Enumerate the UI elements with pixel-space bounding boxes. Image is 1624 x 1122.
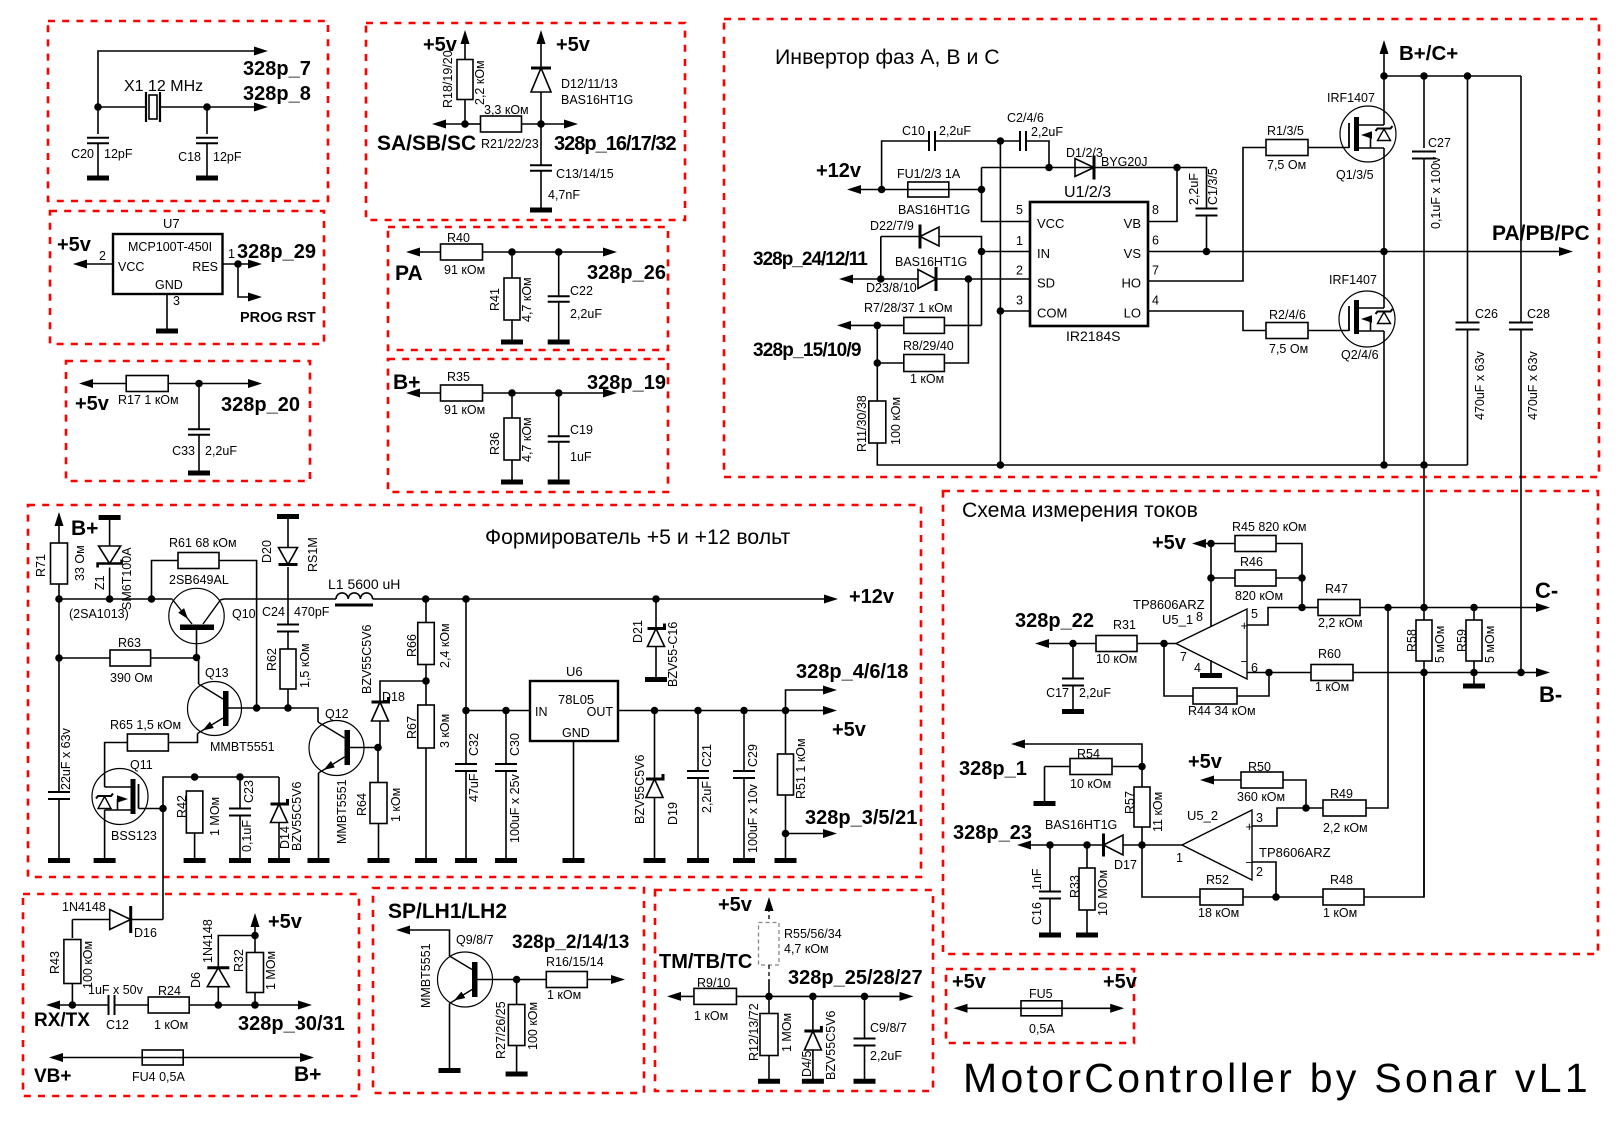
svg-text:0,1uF x 100v: 0,1uF x 100v bbox=[1429, 156, 1443, 229]
junction bbox=[1298, 574, 1306, 582]
resistor R45 820k bbox=[1235, 536, 1276, 552]
svg-text:MMBT5551: MMBT5551 bbox=[210, 740, 275, 754]
svg-text:U7: U7 bbox=[163, 216, 180, 231]
junction bbox=[997, 461, 1005, 469]
svg-text:IN: IN bbox=[1037, 246, 1050, 261]
svg-text:4,7 кОм: 4,7 кОм bbox=[784, 942, 829, 956]
resistor R2/4/6 7,5 Ом bbox=[1266, 323, 1308, 339]
resistor R63 390 Ом bbox=[58, 599, 60, 658]
svg-text:R63: R63 bbox=[118, 636, 141, 650]
diode D6 1N4148 bbox=[217, 987, 219, 1006]
svg-text:D16: D16 bbox=[134, 926, 157, 940]
resistor R32 1M bbox=[254, 936, 256, 953]
ground bbox=[506, 1072, 528, 1077]
wire R1 to Q1 gate bbox=[1308, 147, 1349, 149]
svg-text:328p_22: 328p_22 bbox=[1015, 610, 1094, 632]
wire TM row left bbox=[673, 995, 694, 997]
svg-text:1N4148: 1N4148 bbox=[62, 900, 106, 914]
wire VCC to +5v bbox=[79, 263, 113, 265]
junction bbox=[1384, 604, 1392, 612]
svg-text:R42: R42 bbox=[175, 795, 189, 818]
svg-text:1nF: 1nF bbox=[1030, 868, 1044, 890]
svg-text:4,7 кОм: 4,7 кОм bbox=[520, 277, 534, 322]
svg-text:8: 8 bbox=[1196, 610, 1203, 624]
ground bbox=[495, 858, 517, 863]
svg-text:1: 1 bbox=[228, 247, 235, 261]
svg-text:R61 68 кОм: R61 68 кОм bbox=[169, 536, 237, 550]
svg-text:R45 820 кОм: R45 820 кОм bbox=[1232, 520, 1307, 534]
wire IN pin bbox=[982, 251, 1031, 253]
resistor R17 1k bbox=[126, 376, 168, 392]
svg-text:1uF: 1uF bbox=[570, 450, 592, 464]
svg-text:Q9/8/7: Q9/8/7 bbox=[456, 933, 494, 947]
resistor R57 11k bbox=[1141, 767, 1143, 788]
svg-text:5: 5 bbox=[1016, 203, 1023, 217]
svg-text:91 кОм: 91 кОм bbox=[444, 403, 485, 417]
svg-text:C18: C18 bbox=[178, 150, 201, 164]
capacitor C28 470uF bbox=[1520, 76, 1522, 323]
svg-text:1 кОм: 1 кОм bbox=[1323, 906, 1357, 920]
svg-text:R16/15/14: R16/15/14 bbox=[546, 955, 604, 969]
svg-text:PROG RST: PROG RST bbox=[240, 310, 316, 326]
wire gate node down to D16 bbox=[162, 809, 164, 920]
resistor R44 34k feedback bbox=[1164, 644, 1193, 697]
svg-text:VB+: VB+ bbox=[34, 1066, 72, 1087]
resistor R49 2,2k bbox=[1306, 807, 1323, 809]
ground bbox=[530, 208, 552, 213]
ground bbox=[368, 858, 390, 863]
wire node2 to 328p arrow bbox=[541, 123, 572, 125]
svg-text:X1 12 MHz: X1 12 MHz bbox=[124, 78, 203, 95]
capacitor C13/14/15 4,7nF bbox=[540, 124, 542, 165]
svg-text:C27: C27 bbox=[1428, 136, 1451, 150]
wire LO to gate resistor bbox=[1148, 311, 1266, 331]
svg-text:U5_1: U5_1 bbox=[1162, 612, 1193, 627]
svg-text:10 кОм: 10 кОм bbox=[1070, 777, 1111, 791]
wire fuse to B+ bbox=[184, 1057, 309, 1059]
svg-text:C32: C32 bbox=[467, 733, 481, 756]
junction bbox=[782, 830, 790, 838]
svg-text:HO: HO bbox=[1122, 276, 1142, 291]
svg-text:100uF x 25v: 100uF x 25v bbox=[508, 773, 522, 843]
svg-text:R40: R40 bbox=[447, 231, 470, 245]
capacitor C23 0,1uF bbox=[239, 777, 241, 809]
svg-text:C23: C23 bbox=[242, 780, 256, 803]
resistor R33 10M bbox=[1086, 845, 1088, 868]
svg-text:4,7nF: 4,7nF bbox=[548, 188, 580, 202]
wire supply rail left bbox=[59, 598, 173, 600]
junction bbox=[195, 380, 203, 388]
ground bbox=[775, 858, 797, 863]
svg-text:C2/4/6: C2/4/6 bbox=[1007, 111, 1044, 125]
wire crystal to 328p_8 arrow bbox=[160, 106, 262, 108]
svg-text:C30: C30 bbox=[508, 733, 522, 756]
wire Q11 gate to node bbox=[139, 808, 164, 810]
svg-text:C24: C24 bbox=[262, 605, 285, 619]
svg-text:MMBT5551: MMBT5551 bbox=[335, 779, 349, 844]
svg-text:MCP100T-450I: MCP100T-450I bbox=[128, 240, 212, 254]
junction bbox=[461, 120, 469, 128]
svg-text:R50: R50 bbox=[1248, 760, 1271, 774]
svg-text:+12v: +12v bbox=[816, 160, 862, 182]
wire C32 drop from rail bbox=[465, 599, 467, 711]
svg-text:R32: R32 bbox=[232, 949, 246, 972]
junction bbox=[508, 248, 516, 256]
ground bbox=[687, 858, 709, 863]
svg-text:+5v: +5v bbox=[1103, 971, 1138, 993]
wire R50 to node bbox=[1283, 780, 1306, 808]
svg-text:−: − bbox=[1241, 654, 1249, 669]
wire COM/ground vertical bbox=[999, 141, 1001, 465]
wire Q1 source to phase bbox=[1383, 148, 1385, 252]
ground bbox=[184, 858, 206, 863]
wire B+ arrow bbox=[1383, 46, 1385, 76]
wire R24 to 328p_30/31 bbox=[190, 1004, 307, 1006]
svg-text:R47: R47 bbox=[1325, 582, 1348, 596]
svg-text:BYG20J: BYG20J bbox=[1101, 155, 1148, 169]
wire HO to gate resistor bbox=[1148, 148, 1266, 282]
svg-text:470pF: 470pF bbox=[294, 605, 330, 619]
svg-text:12pF: 12pF bbox=[213, 150, 242, 164]
svg-text:VCC: VCC bbox=[118, 260, 144, 274]
svg-text:COM: COM bbox=[1037, 306, 1067, 321]
junction bbox=[193, 654, 201, 662]
block hall sensor inputs SA/SB/SC bbox=[366, 23, 685, 220]
svg-text:2SB649AL: 2SB649AL bbox=[169, 573, 229, 587]
capacitor C29 100uF bbox=[743, 711, 745, 772]
svg-text:U5_2: U5_2 bbox=[1187, 808, 1218, 823]
diode D17 BAS16HT1G bbox=[1104, 835, 1124, 855]
wire +5v arrow bbox=[254, 919, 256, 936]
svg-text:7,5 Ом: 7,5 Ом bbox=[1269, 342, 1308, 356]
svg-text:R67: R67 bbox=[405, 716, 419, 739]
ground bbox=[87, 176, 109, 181]
capacitor C30 100uF bbox=[505, 711, 507, 765]
junction bbox=[502, 707, 510, 715]
ground bbox=[229, 858, 251, 863]
svg-text:1 МОм: 1 МОм bbox=[780, 1013, 794, 1052]
svg-text:GND: GND bbox=[562, 726, 590, 740]
svg-text:328p_2/14/13: 328p_2/14/13 bbox=[512, 932, 629, 953]
junction bbox=[251, 932, 259, 940]
junction bbox=[1298, 604, 1306, 612]
ground bbox=[268, 858, 290, 863]
junction bbox=[462, 707, 470, 715]
svg-text:B+: B+ bbox=[71, 517, 98, 540]
svg-text:1: 1 bbox=[1176, 851, 1183, 865]
wire VCC top line bbox=[982, 167, 1178, 169]
svg-text:C13/14/15: C13/14/15 bbox=[556, 167, 614, 181]
svg-text:3,3 кОм: 3,3 кОм bbox=[484, 103, 529, 117]
svg-text:10 кОм: 10 кОм bbox=[1096, 652, 1137, 666]
junction bbox=[997, 307, 1005, 315]
junction bbox=[422, 677, 430, 685]
svg-text:R62: R62 bbox=[265, 648, 279, 671]
capacitor C16 1nF bbox=[1049, 845, 1051, 892]
wire R55 stub bbox=[768, 980, 770, 996]
wire U6 gnd bbox=[573, 741, 575, 859]
svg-text:+12v: +12v bbox=[849, 586, 895, 608]
svg-text:2,2uF: 2,2uF bbox=[1187, 173, 1201, 205]
wire Q9 emitter to ground bbox=[449, 1004, 451, 1070]
svg-text:BZV55C5V6: BZV55C5V6 bbox=[290, 781, 304, 851]
junction bbox=[1420, 669, 1428, 677]
junction bbox=[1265, 669, 1273, 677]
svg-text:R55/56/34: R55/56/34 bbox=[784, 927, 842, 941]
svg-text:BZV55C5V6: BZV55C5V6 bbox=[360, 624, 374, 694]
wire pin2 to R52/R48 node bbox=[1252, 862, 1276, 897]
wire pin3 to node bbox=[1252, 808, 1306, 826]
resistor R71 33 Ом bbox=[51, 543, 68, 584]
svg-text:Q12: Q12 bbox=[325, 707, 349, 721]
svg-text:Q10: Q10 bbox=[232, 607, 256, 621]
svg-text:C12: C12 bbox=[106, 1018, 129, 1032]
svg-text:R71: R71 bbox=[34, 554, 48, 577]
ground bbox=[501, 480, 523, 485]
ground bbox=[854, 1079, 876, 1084]
capacitor C21 2,2uF bbox=[697, 711, 699, 772]
wire 328p_4/6/18 branch bbox=[786, 690, 832, 711]
wire GND pin bbox=[166, 294, 168, 331]
block phase A voltage divider bbox=[388, 227, 668, 350]
wire +5v to R45 bbox=[1198, 543, 1235, 545]
diode D20 RS1M bbox=[277, 514, 299, 519]
ground bbox=[439, 1068, 461, 1073]
svg-text:R46: R46 bbox=[1240, 555, 1263, 569]
svg-text:(2SA1013): (2SA1013) bbox=[69, 607, 129, 621]
svg-text:820 кОм: 820 кОм bbox=[1235, 589, 1283, 603]
junction bbox=[978, 186, 986, 194]
junction bbox=[1207, 540, 1215, 548]
svg-text:C20: C20 bbox=[71, 147, 94, 161]
ground R54 left bbox=[1044, 767, 1046, 803]
capacitor C27 0,1uF bbox=[1423, 76, 1425, 148]
svg-text:C29: C29 bbox=[746, 744, 760, 767]
resistor R7/28/37 1k bbox=[904, 317, 945, 333]
svg-text:3 кОм: 3 кОм bbox=[438, 714, 452, 748]
svg-text:R33: R33 bbox=[1068, 875, 1082, 898]
resistor R66 2,4k bbox=[425, 599, 427, 623]
capacitor C12 1uF bbox=[109, 995, 115, 1015]
wire 328p_22 row bbox=[1041, 643, 1176, 645]
svg-text:GND: GND bbox=[155, 278, 183, 292]
svg-text:SA/SB/SC: SA/SB/SC bbox=[377, 132, 476, 155]
capacitor C32 47uF bbox=[465, 711, 467, 765]
svg-text:SD: SD bbox=[1037, 276, 1055, 291]
svg-text:R43: R43 bbox=[48, 951, 62, 974]
ground bbox=[196, 176, 218, 181]
capacitor C9/8/7 2,2uF bbox=[864, 996, 866, 1038]
svg-text:7: 7 bbox=[1180, 650, 1187, 664]
svg-text:328p_16/17/32: 328p_16/17/32 bbox=[554, 133, 676, 155]
svg-text:1,5 кОм: 1,5 кОм bbox=[298, 643, 312, 688]
capacitor C18 12pF bbox=[206, 107, 208, 134]
svg-text:D1/2/3: D1/2/3 bbox=[1066, 146, 1103, 160]
wire R49 up to C- bbox=[1366, 608, 1388, 809]
svg-text:7: 7 bbox=[1152, 264, 1159, 278]
svg-text:2,2 кОм: 2,2 кОм bbox=[1323, 821, 1368, 835]
wire R9 to 328p_25/28/27 bbox=[737, 995, 908, 997]
svg-text:C1/3/5: C1/3/5 bbox=[1206, 168, 1220, 205]
svg-text:R36: R36 bbox=[488, 432, 502, 455]
resistor R55/56/34 optional dashed bbox=[759, 923, 780, 966]
svg-text:+5v: +5v bbox=[556, 34, 591, 56]
svg-text:R31: R31 bbox=[1113, 618, 1136, 632]
svg-text:328p_24/12/11: 328p_24/12/11 bbox=[753, 249, 868, 270]
svg-text:1 кОм: 1 кОм bbox=[910, 372, 944, 386]
resistor R31 10k bbox=[1096, 636, 1137, 652]
svg-text:+5v: +5v bbox=[75, 393, 110, 415]
svg-text:R57: R57 bbox=[1123, 791, 1137, 814]
resistor R16/15/14 1k bbox=[546, 972, 587, 988]
block inverter phases A B C bbox=[724, 19, 1599, 477]
wire R17 to 328p_20 bbox=[169, 383, 257, 385]
svg-text:4: 4 bbox=[1152, 294, 1159, 308]
junction bbox=[874, 322, 882, 330]
svg-text:Z1: Z1 bbox=[93, 575, 107, 590]
svg-text:328p_25/28/27: 328p_25/28/27 bbox=[788, 967, 923, 989]
svg-text:+5v: +5v bbox=[718, 894, 753, 916]
svg-text:470uF x 63v: 470uF x 63v bbox=[1526, 350, 1540, 420]
svg-text:R24: R24 bbox=[158, 984, 181, 998]
svg-text:1 кОм: 1 кОм bbox=[154, 1018, 188, 1032]
wire D23 to SD pin bbox=[936, 278, 1030, 280]
svg-text:1 кОм: 1 кОм bbox=[694, 1009, 728, 1023]
zener D18 BZV55C5V6 bbox=[380, 681, 426, 702]
wire R45 right bbox=[1276, 544, 1302, 608]
svg-text:LO: LO bbox=[1124, 306, 1141, 321]
svg-text:MotorController by Sonar vL1: MotorController by Sonar vL1 bbox=[963, 1055, 1591, 1101]
capacitor C19 1uF bbox=[558, 393, 560, 436]
svg-text:−: − bbox=[1246, 855, 1254, 870]
wire +5v to R50 bbox=[1206, 779, 1241, 781]
svg-text:Q1/3/5: Q1/3/5 bbox=[1336, 168, 1374, 182]
resistor R51 1k bbox=[785, 711, 787, 755]
wire COM pin bbox=[1000, 310, 1030, 312]
block reset RC filter bbox=[66, 361, 310, 481]
wire R61 to Q13 base node bbox=[219, 561, 257, 709]
wire R7 row left bbox=[843, 324, 904, 326]
svg-text:FU1/2/3 1A: FU1/2/3 1A bbox=[897, 167, 961, 181]
svg-text:1N4148: 1N4148 bbox=[201, 919, 215, 963]
junction bbox=[878, 186, 886, 194]
svg-text:D12/11/13: D12/11/13 bbox=[561, 77, 618, 91]
svg-text:328p_7: 328p_7 bbox=[243, 58, 311, 80]
ground bbox=[94, 858, 116, 863]
svg-text:C17: C17 bbox=[1046, 686, 1069, 700]
capacitor C33 2,2uF bbox=[198, 384, 200, 429]
ground bbox=[1039, 933, 1061, 938]
svg-text:22uF x 63v: 22uF x 63v bbox=[59, 727, 73, 790]
junction bbox=[191, 773, 199, 781]
svg-text:360 кОм: 360 кОм bbox=[1237, 790, 1285, 804]
svg-text:Схема измерения токов: Схема измерения токов bbox=[962, 499, 1198, 522]
ground bbox=[644, 858, 666, 863]
svg-text:SP/LH1/LH2: SP/LH1/LH2 bbox=[388, 900, 507, 923]
zener D14 BZV55C5V6 bbox=[278, 777, 280, 804]
svg-text:328p_23: 328p_23 bbox=[953, 822, 1032, 844]
wire pin6 row bbox=[1247, 672, 1311, 674]
wire SD row left bbox=[845, 278, 918, 280]
svg-text:Q2/4/6: Q2/4/6 bbox=[1341, 348, 1379, 362]
svg-text:RS1M: RS1M bbox=[306, 537, 320, 572]
svg-text:B+/C+: B+/C+ bbox=[1399, 42, 1458, 65]
junction bbox=[253, 704, 261, 712]
wire B+ in bbox=[55, 512, 64, 526]
svg-text:1 кОм: 1 кОм bbox=[389, 788, 403, 822]
svg-text:R1/3/5: R1/3/5 bbox=[1267, 124, 1304, 138]
resistor R12/13/72 1M bbox=[768, 996, 770, 1013]
wire B+ to R35 bbox=[412, 392, 441, 394]
wire 328p_23 row bbox=[1023, 844, 1104, 846]
wire Q2 source to rail bbox=[1383, 331, 1385, 465]
junction bbox=[1272, 893, 1280, 901]
capacitor C2/4/6 2,2uF bbox=[1000, 140, 1020, 142]
svg-text:R41: R41 bbox=[488, 288, 502, 311]
wire R18 to node bbox=[464, 100, 466, 125]
resistor R21/22/23 3,3k bbox=[465, 123, 481, 125]
svg-text:R48: R48 bbox=[1330, 873, 1353, 887]
svg-text:328p_29: 328p_29 bbox=[237, 241, 316, 263]
ground bbox=[548, 480, 570, 485]
resistor R9/10 1k bbox=[694, 988, 737, 1004]
svg-text:3: 3 bbox=[1016, 294, 1023, 308]
block temperature inputs TM/TB/TC bbox=[655, 890, 933, 1091]
wire C27 down to C- node bbox=[1423, 159, 1425, 898]
svg-text:C10: C10 bbox=[902, 124, 925, 138]
svg-text:6: 6 bbox=[1152, 234, 1159, 248]
junction IN bbox=[978, 248, 986, 256]
ground bbox=[758, 1079, 780, 1084]
wire Q13 emitter to R65 bbox=[168, 734, 197, 743]
ground bbox=[563, 858, 585, 863]
svg-text:R21/22/23: R21/22/23 bbox=[481, 137, 539, 151]
svg-text:328p_1: 328p_1 bbox=[959, 758, 1027, 780]
ground bbox=[1062, 709, 1084, 714]
svg-text:C22: C22 bbox=[570, 284, 593, 298]
diode D1/2/3 BYG20J bbox=[1075, 159, 1094, 177]
ground bbox=[1473, 673, 1475, 685]
svg-text:BZV55-C16: BZV55-C16 bbox=[666, 622, 680, 687]
resistor R65 1,5k bbox=[127, 734, 168, 751]
svg-text:C9/8/7: C9/8/7 bbox=[870, 1021, 907, 1035]
svg-text:+5v: +5v bbox=[268, 911, 303, 933]
block crystal oscillator bbox=[48, 21, 328, 201]
wire VB+ fuse row bbox=[55, 1057, 142, 1059]
junction bbox=[537, 120, 545, 128]
svg-text:0,1uF: 0,1uF bbox=[240, 820, 254, 852]
svg-text:R35: R35 bbox=[447, 370, 470, 384]
wire D17 to opamp input bbox=[1123, 844, 1182, 846]
resistor R8/29/40 1k bbox=[876, 325, 878, 363]
block SP/LH sensor driver bbox=[373, 888, 644, 1093]
svg-text:R54: R54 bbox=[1077, 747, 1100, 761]
wire RES to 328p_29 bbox=[223, 263, 257, 265]
svg-text:IRF1407: IRF1407 bbox=[1329, 273, 1377, 287]
resistor R46 820k bbox=[1210, 544, 1212, 628]
diode D22/7/9 BAS16HT1G bbox=[881, 236, 920, 238]
junction bbox=[1045, 164, 1053, 172]
svg-text:1 МОм: 1 МОм bbox=[264, 951, 278, 990]
resistor R41 4,7k bbox=[511, 252, 513, 278]
svg-text:C-: C- bbox=[1535, 578, 1558, 603]
svg-text:+: + bbox=[1246, 819, 1254, 834]
svg-text:328p_8: 328p_8 bbox=[243, 83, 311, 105]
junction bbox=[159, 805, 167, 813]
svg-text:C33: C33 bbox=[172, 444, 195, 458]
svg-text:PA: PA bbox=[395, 262, 423, 285]
svg-text:BSS123: BSS123 bbox=[111, 829, 157, 843]
